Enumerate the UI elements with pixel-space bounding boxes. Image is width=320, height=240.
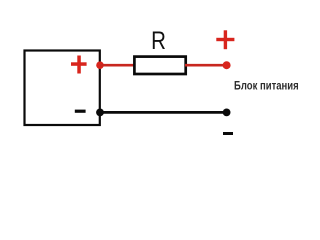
power supply box <box>25 51 100 126</box>
node: black junction dot on box edge <box>96 109 104 117</box>
node: black terminal dot <box>223 109 231 117</box>
node: red junction dot on box edge <box>96 61 104 69</box>
wire: red, box to resistor <box>100 64 135 67</box>
plus symbol at output terminal <box>216 30 234 49</box>
wire: red, resistor to terminal <box>185 64 224 67</box>
wire: black, box to terminal <box>100 111 224 114</box>
svg-text:Блок питания: Блок питания <box>234 79 299 92</box>
svg-text:R: R <box>151 26 166 54</box>
resistor R <box>134 57 185 74</box>
minus symbol inside box <box>75 110 86 113</box>
minus symbol at output terminal <box>223 132 233 135</box>
plus symbol inside box <box>71 56 87 74</box>
node: red terminal dot <box>223 61 231 69</box>
